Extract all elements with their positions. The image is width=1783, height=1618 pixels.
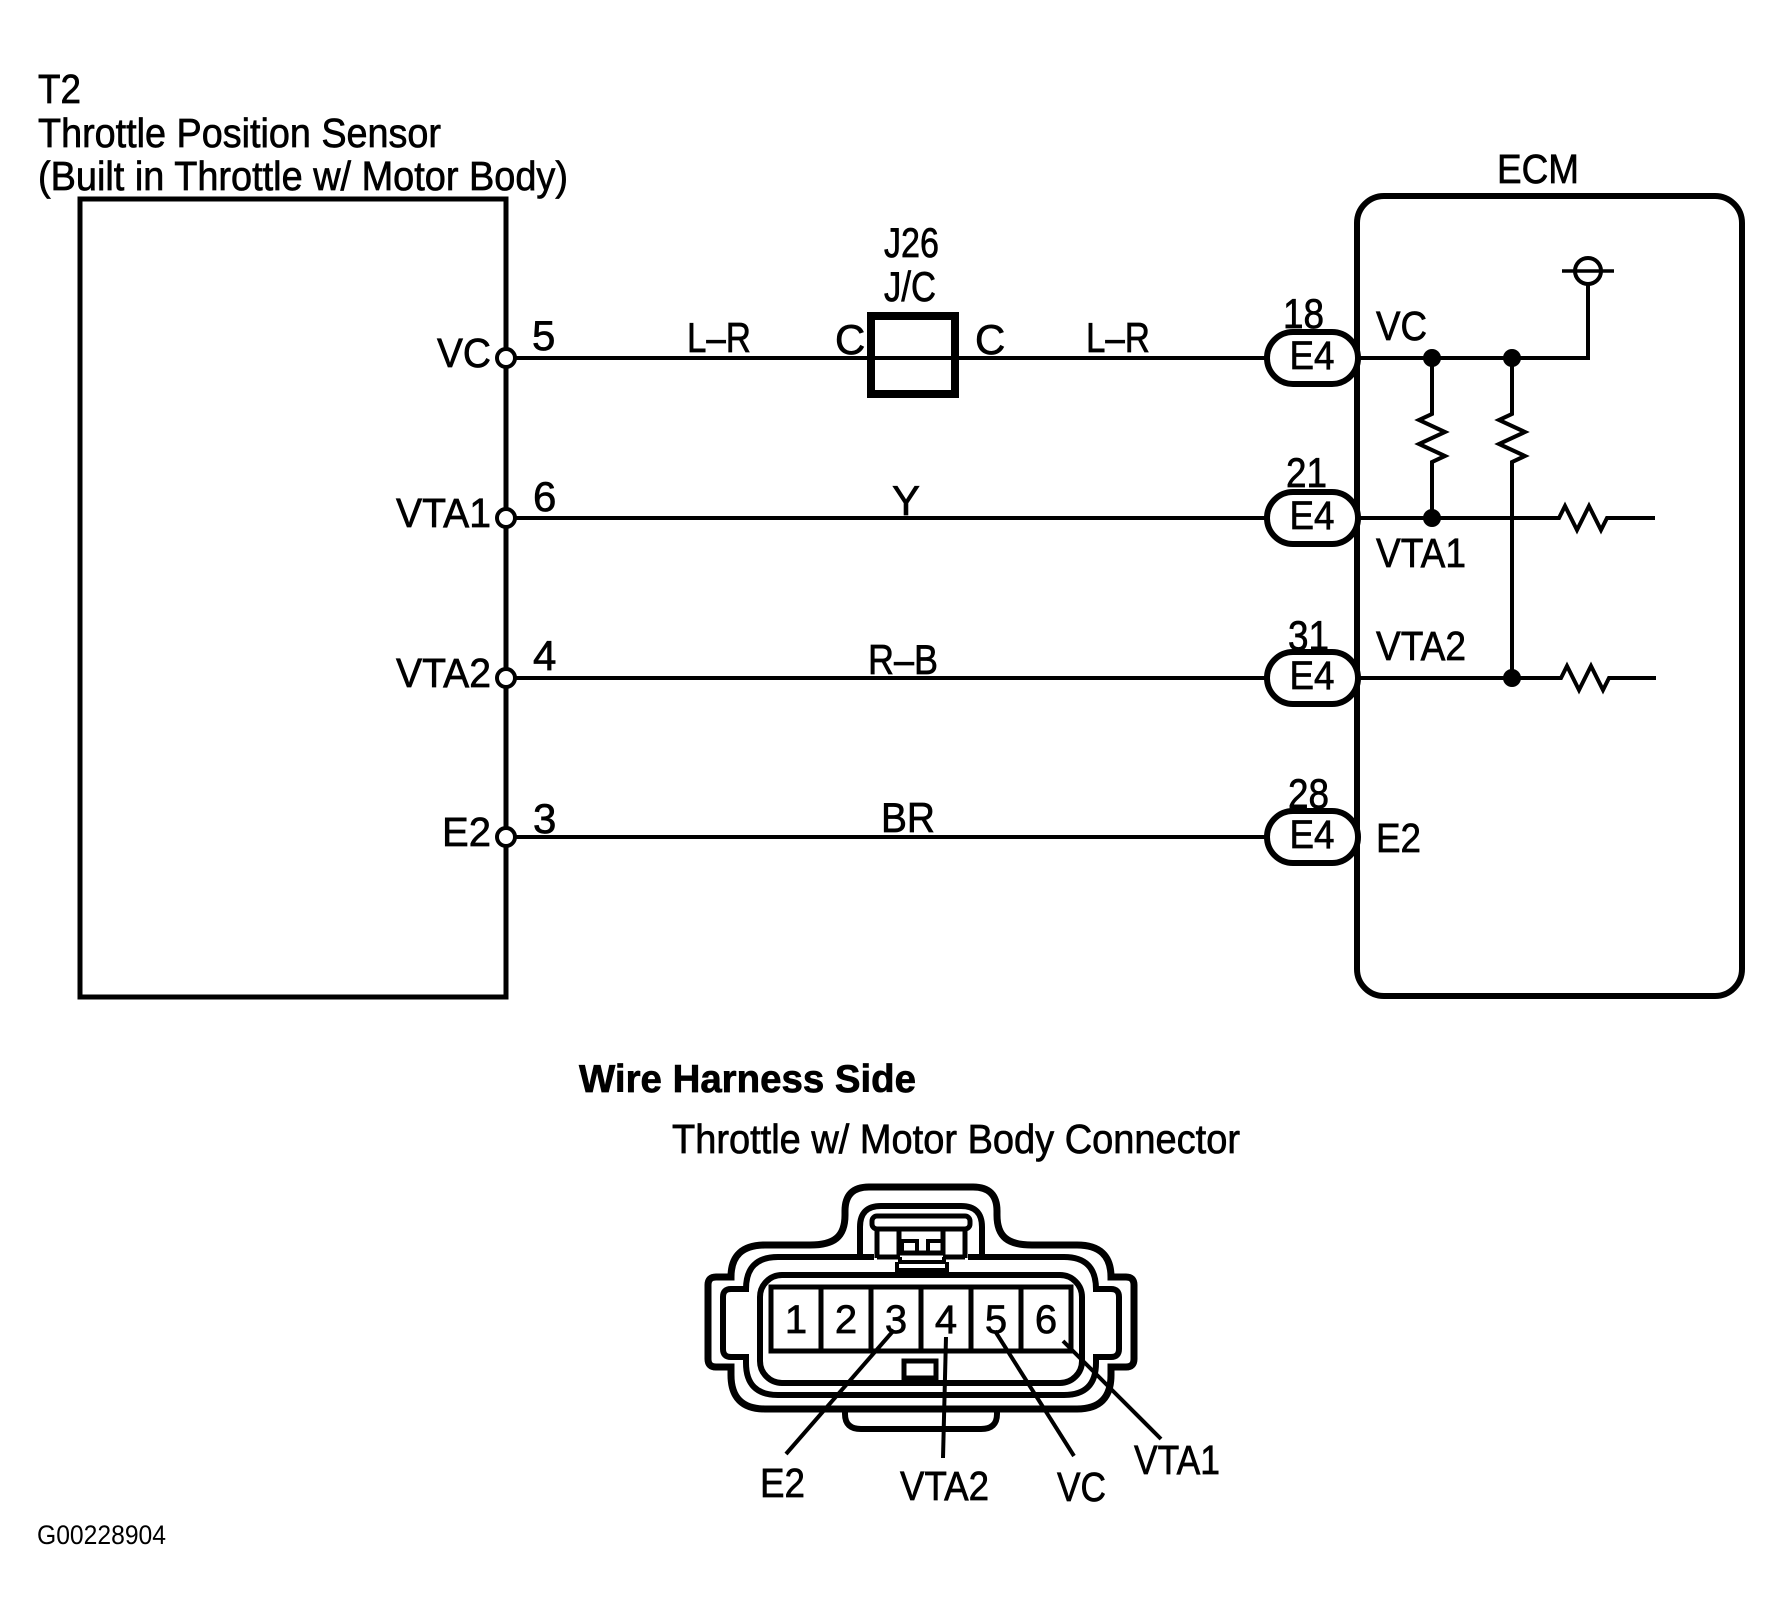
svg-text:VTA1: VTA1 — [1376, 530, 1466, 576]
svg-text:5: 5 — [532, 312, 555, 359]
svg-text:6: 6 — [1035, 1298, 1057, 1342]
svg-text:2: 2 — [835, 1298, 857, 1342]
svg-text:31: 31 — [1288, 612, 1329, 659]
svg-text:VTA2: VTA2 — [1376, 623, 1466, 669]
svg-text:J26: J26 — [884, 219, 939, 266]
svg-text:VTA2: VTA2 — [900, 1463, 989, 1509]
svg-text:E4: E4 — [1290, 334, 1335, 378]
svg-text:21: 21 — [1286, 449, 1327, 496]
svg-text:Y: Y — [892, 477, 920, 524]
svg-text:E2: E2 — [1376, 815, 1421, 861]
svg-text:(Built in Throttle w/ Motor Bo: (Built in Throttle w/ Motor Body) — [38, 153, 568, 199]
svg-text:G00228904: G00228904 — [37, 1520, 166, 1550]
svg-text:C: C — [975, 316, 1005, 363]
svg-text:C: C — [835, 316, 865, 363]
svg-text:4: 4 — [533, 632, 556, 679]
svg-text:VC: VC — [1376, 303, 1427, 349]
svg-text:ECM: ECM — [1497, 146, 1579, 192]
svg-text:18: 18 — [1283, 290, 1324, 337]
svg-text:VTA1: VTA1 — [1134, 1437, 1220, 1483]
svg-text:28: 28 — [1288, 770, 1329, 817]
svg-text:VC: VC — [1057, 1464, 1106, 1510]
svg-text:Wire Harness Side: Wire Harness Side — [579, 1058, 916, 1101]
svg-text:E2: E2 — [760, 1460, 805, 1506]
svg-text:Throttle w/ Motor Body Connect: Throttle w/ Motor Body Connector — [672, 1116, 1240, 1162]
svg-text:E4: E4 — [1290, 494, 1335, 538]
svg-text:VTA2: VTA2 — [396, 650, 491, 696]
svg-text:Throttle Position Sensor: Throttle Position Sensor — [38, 110, 441, 156]
svg-text:E4: E4 — [1290, 813, 1335, 857]
svg-text:R–B: R–B — [868, 636, 938, 683]
svg-text:4: 4 — [935, 1298, 957, 1342]
svg-text:3: 3 — [533, 795, 556, 842]
svg-text:L–R: L–R — [1086, 314, 1150, 361]
svg-text:J/C: J/C — [884, 263, 936, 310]
svg-text:1: 1 — [785, 1298, 807, 1342]
svg-text:6: 6 — [533, 473, 556, 520]
svg-text:L–R: L–R — [687, 314, 751, 361]
svg-text:E2: E2 — [442, 809, 491, 855]
svg-text:VTA1: VTA1 — [396, 490, 491, 536]
svg-text:E4: E4 — [1290, 654, 1335, 698]
svg-text:T2: T2 — [38, 66, 81, 112]
svg-text:BR: BR — [881, 794, 935, 841]
svg-text:VC: VC — [437, 330, 491, 376]
